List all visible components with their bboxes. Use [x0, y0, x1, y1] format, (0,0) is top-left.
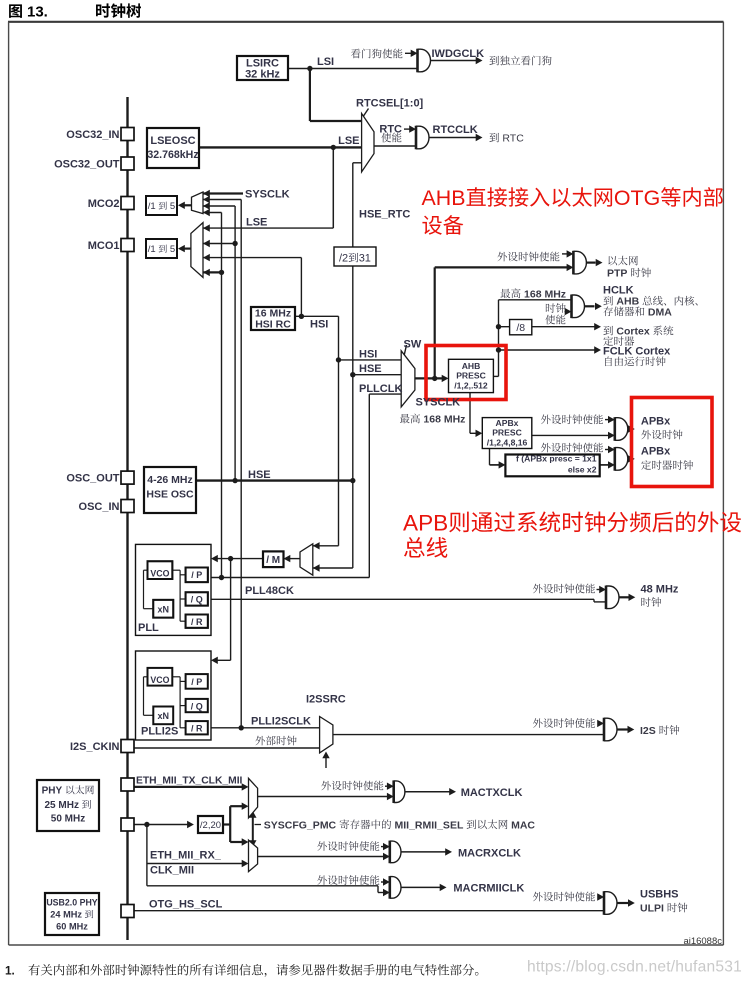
- svg-text:5: 5: [167, 201, 175, 212]
- svg-text:/ P: / P: [191, 677, 202, 687]
- svg-text:RTC: RTC: [379, 124, 402, 136]
- svg-text:HSI: HSI: [359, 349, 377, 361]
- svg-text:168 MHz: 168 MHz: [421, 414, 466, 426]
- svg-text:SYSCLK: SYSCLK: [416, 397, 461, 409]
- svg-text:PLL48CK: PLL48CK: [245, 585, 294, 597]
- svg-text:RTC: RTC: [500, 133, 525, 145]
- svg-text:APBx: APBx: [496, 418, 519, 428]
- svg-text:USB2.0 PHY: USB2.0 PHY: [46, 898, 97, 908]
- svg-text:OTG: OTG: [614, 186, 660, 210]
- svg-text:I2S: I2S: [640, 725, 659, 737]
- svg-text:OTG_HS_SCL: OTG_HS_SCL: [149, 899, 223, 911]
- svg-text:HCLK: HCLK: [603, 285, 634, 297]
- svg-text:ai16088c: ai16088c: [683, 936, 722, 947]
- svg-text:APBx: APBx: [641, 416, 671, 428]
- svg-text:APB: APB: [403, 511, 448, 536]
- svg-text:USBHS: USBHS: [640, 889, 679, 901]
- svg-text:ETH_MII_RX_: ETH_MII_RX_: [150, 850, 222, 862]
- svg-text:SYSCLK: SYSCLK: [245, 189, 290, 201]
- svg-text:ULPI: ULPI: [640, 903, 667, 915]
- svg-text:AHB: AHB: [462, 361, 481, 371]
- svg-text:HSE_RTC: HSE_RTC: [359, 209, 410, 221]
- svg-text:PLLCLK: PLLCLK: [359, 383, 402, 395]
- svg-text:/1,2,.512: /1,2,.512: [454, 381, 488, 391]
- svg-text:SYSCFG_PMC: SYSCFG_PMC: [264, 819, 339, 831]
- svg-text:IWDGCLK: IWDGCLK: [432, 48, 485, 60]
- svg-text:32.768kHz: 32.768kHz: [147, 149, 198, 161]
- svg-text:else x2: else x2: [568, 465, 597, 475]
- svg-text:PLLI2SCLK: PLLI2SCLK: [251, 716, 311, 728]
- svg-text:OSC32_OUT: OSC32_OUT: [54, 159, 120, 171]
- svg-text:/ R: / R: [191, 617, 203, 627]
- svg-text:CLK_MII: CLK_MII: [150, 865, 194, 877]
- svg-text:168 MHz: 168 MHz: [521, 288, 566, 300]
- svg-text:25 MHz: 25 MHz: [45, 800, 82, 811]
- svg-text:13.: 13.: [27, 4, 48, 21]
- svg-text:/ P: / P: [191, 570, 202, 580]
- svg-text:4-26 MHz: 4-26 MHz: [147, 474, 193, 486]
- svg-text:OSC_OUT: OSC_OUT: [66, 473, 119, 485]
- svg-text:PHY: PHY: [42, 786, 65, 797]
- svg-text:PTP: PTP: [607, 268, 630, 280]
- svg-text:HSI: HSI: [310, 319, 328, 331]
- svg-text:MII_RMII_SEL: MII_RMII_SEL: [392, 819, 467, 831]
- svg-text:MCO2: MCO2: [88, 198, 120, 210]
- svg-text:48 MHz: 48 MHz: [641, 584, 679, 596]
- svg-text:AHB: AHB: [614, 296, 643, 308]
- svg-text:RTCCLK: RTCCLK: [433, 124, 478, 136]
- svg-text:PRESC: PRESC: [456, 371, 486, 381]
- svg-text:1.: 1.: [5, 964, 15, 978]
- svg-text:OSC32_IN: OSC32_IN: [66, 129, 119, 141]
- svg-text:24 MHz: 24 MHz: [50, 910, 84, 920]
- svg-text:PRESC: PRESC: [492, 428, 522, 438]
- svg-text:/ Q: / Q: [191, 595, 203, 605]
- svg-text:31: 31: [359, 253, 371, 265]
- svg-text:LSE: LSE: [338, 135, 359, 147]
- svg-text:RTCSEL[1:0]: RTCSEL[1:0]: [356, 98, 424, 110]
- svg-text:xN: xN: [157, 711, 169, 721]
- svg-text:PLL: PLL: [138, 622, 159, 634]
- svg-text:ETH_MII_TX_CLK_MII: ETH_MII_TX_CLK_MII: [136, 776, 243, 787]
- svg-text:f (APBx presc = 1x1: f (APBx presc = 1x1: [516, 454, 597, 464]
- svg-text:HSE: HSE: [248, 469, 271, 481]
- svg-text:/1: /1: [148, 244, 159, 255]
- svg-text:/1,2,4,8,16: /1,2,4,8,16: [487, 438, 528, 448]
- svg-text:DMA: DMA: [645, 306, 672, 318]
- svg-text:LSEOSC: LSEOSC: [150, 135, 195, 147]
- svg-text:VCO: VCO: [150, 675, 169, 685]
- svg-text:MACTXCLK: MACTXCLK: [461, 787, 523, 799]
- svg-text:OSC_IN: OSC_IN: [79, 501, 120, 513]
- svg-text:https://blog.csdn.net/hufan531: https://blog.csdn.net/hufan531: [527, 959, 742, 976]
- svg-text:HSI RC: HSI RC: [255, 319, 291, 331]
- svg-text:HSE OSC: HSE OSC: [146, 489, 194, 501]
- svg-text:HSE: HSE: [359, 363, 382, 375]
- svg-text:I2SSRC: I2SSRC: [306, 694, 346, 706]
- svg-text:LSI: LSI: [317, 56, 334, 68]
- svg-text:LSE: LSE: [246, 217, 267, 229]
- svg-text:/2,20: /2,20: [200, 820, 221, 831]
- svg-text:50 MHz: 50 MHz: [51, 814, 85, 825]
- svg-text:AHB: AHB: [422, 186, 466, 210]
- svg-text:60 MHz: 60 MHz: [56, 922, 88, 932]
- svg-text:MACRMIICLK: MACRMIICLK: [453, 883, 524, 895]
- svg-text:MCO1: MCO1: [88, 240, 120, 252]
- svg-text:APBx: APBx: [641, 446, 671, 458]
- svg-text:/ M: / M: [266, 555, 280, 566]
- svg-text:MACRXCLK: MACRXCLK: [458, 847, 521, 859]
- svg-text:MAC: MAC: [508, 819, 535, 831]
- svg-text:/8: /8: [516, 322, 525, 334]
- svg-text:32 kHz: 32 kHz: [245, 69, 280, 81]
- svg-text:/1: /1: [148, 201, 159, 212]
- svg-text:I2S_CKIN: I2S_CKIN: [70, 741, 120, 753]
- svg-text:5: 5: [167, 244, 175, 255]
- svg-text:/ R: / R: [191, 724, 203, 734]
- svg-text:SW: SW: [404, 339, 422, 351]
- svg-text:PLLI2S: PLLI2S: [141, 726, 178, 738]
- svg-text:/2: /2: [339, 253, 348, 265]
- svg-text:VCO: VCO: [150, 569, 169, 579]
- svg-text:FCLK Cortex: FCLK Cortex: [603, 346, 671, 358]
- svg-text:Cortex: Cortex: [614, 326, 653, 338]
- svg-text:xN: xN: [157, 605, 169, 615]
- svg-text:/ Q: / Q: [191, 701, 203, 711]
